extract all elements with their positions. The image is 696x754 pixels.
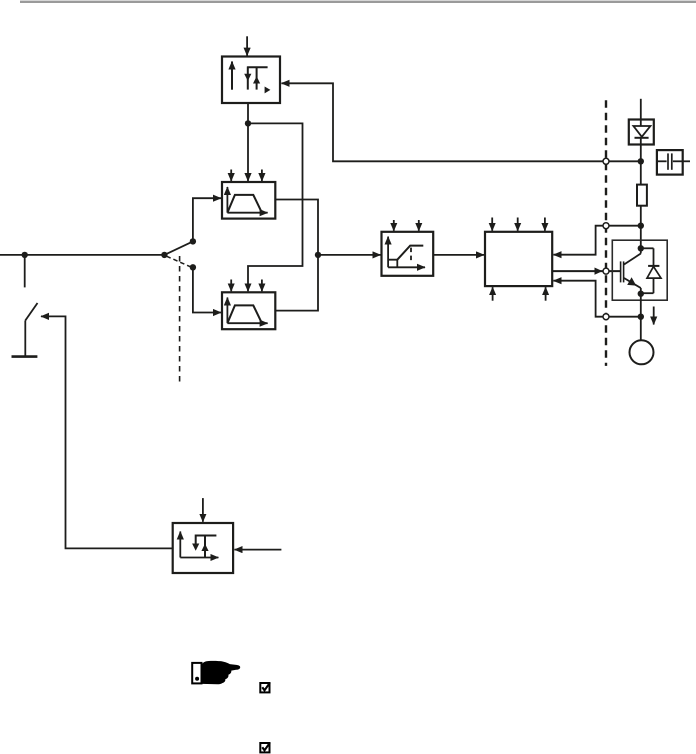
wire: lower ramp generator output to summing node [275,255,318,311]
motor [630,340,654,364]
ramp function generator box (lower) [222,292,275,329]
switch upper contact node [190,238,196,244]
wire: feedback into right side of upper motor potentiometer box [282,83,641,161]
parameter arrow stubs below control unit box [493,287,546,301]
arrowhead on gate drive at terminal [595,268,603,275]
motor potentiometer box (upper) [222,57,280,104]
control unit box [485,232,552,286]
parameter arrow stubs above control unit box [492,218,545,231]
IGBT transistor [621,248,641,293]
motor potentiometer box (lower) [173,523,233,573]
wire: from motor potentiometer box down to node [247,103,249,123]
manicule hand icon [192,661,240,684]
summing node [315,252,321,258]
terminal circle on gate drive [603,268,609,274]
parameter arrow stubs above lower ramp generator [231,280,262,292]
parameter arrow stubs above V/f characteristic box [394,220,419,231]
output current arrow [653,307,655,325]
wire: V/f box output to control unit [433,254,484,256]
V/f characteristic box [382,232,434,276]
wire: lower contact to lower ramp generator input [193,267,221,312]
wire: feedback node down to collector node [640,226,642,249]
terminal circle on lower feedback [603,314,609,320]
wire: to motor [640,317,642,341]
lower feedback node [638,314,644,320]
setpoint selector alternate position (dashed) [167,256,191,267]
wire: summing node to V/f characteristic box [318,254,381,256]
parameter arrow stubs above upper ramp generator [231,170,262,182]
setpoint selector switch blade [164,241,193,255]
ramp function generator box (upper) [222,182,275,219]
wire: emitter feedback into control unit [554,281,641,317]
checkbox 2 [260,743,270,753]
wire: upper contact to upper ramp generator input [193,198,221,241]
emitter node [638,291,644,297]
node on main setpoint line [22,252,28,258]
wire: arrow into right side of lower motor potentiometer box [235,549,282,551]
wire: node to lower ramp generator (around right side) [248,123,303,291]
wire: supply stub above rectifier diode [640,99,642,120]
wire: DC-link voltage feedback into control unit [554,226,641,255]
wire: DC-link node down to resistor [640,161,642,184]
wire: capacitor box to right edge [683,160,690,162]
lower switch bottom bar [12,355,38,358]
wire: node down to lower switch [24,255,26,288]
DC-link node [638,158,644,164]
wire: arrow into top of motor potentiometer box [246,36,248,55]
resistor [637,185,647,206]
IGBT module box [612,240,667,300]
wire: control arrow to lower switch [41,316,173,548]
main setpoint line from left edge [0,254,164,256]
wire: rectifier to DC-link node [640,145,642,162]
lower switch stem [24,321,26,356]
dashed terminal boundary (left) [179,256,181,383]
wire: emitter down to lower feedback node [640,294,642,317]
feedback node upper [638,223,644,229]
wire: gate drive output from control unit to IGBT [552,270,620,272]
switch lower contact node [190,264,196,270]
node below motor potentiometer box [245,120,251,126]
lower switch blade (open contact) [25,303,37,321]
dashed power terminal boundary (right) [605,100,607,366]
freewheeling diode [641,248,661,293]
wire: upper ramp generator output to summing node [275,200,318,255]
wire: arrow into top of lower motor potentiometer box [202,498,204,522]
DC-link capacitor box [657,150,683,175]
terminal circle on upper feedback [603,223,609,229]
rectifier diode box [629,120,654,145]
collector node [638,245,644,251]
checkbox 1 [260,683,270,693]
wire: node down into upper ramp generator [247,123,249,181]
wire: resistor to feedback node [640,206,642,226]
setpoint selector switch pivot node [161,252,167,258]
terminal circle on DC bus [603,158,609,164]
header rule [20,1,696,3]
